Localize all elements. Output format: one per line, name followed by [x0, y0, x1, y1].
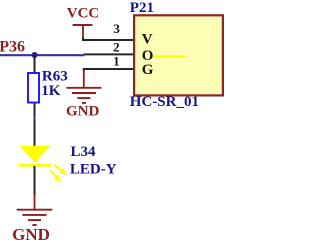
svg-text:G: G [142, 62, 154, 78]
highlighted net stub inside box (yellow) [153, 55, 186, 57]
svg-text:3: 3 [113, 21, 120, 36]
svg-text:2: 2 [113, 39, 120, 54]
wire resistor to LED [34, 103, 36, 147]
designator L34 [71, 144, 97, 160]
LED light arrow 1 [54, 165, 67, 175]
LED L34 cathode bar [18, 164, 51, 167]
svg-text:GND: GND [12, 225, 50, 243]
pin name G [142, 62, 154, 78]
ground GND (lower) text [12, 225, 50, 244]
pin number 1 [113, 54, 120, 69]
ground GND (upper) stem [83, 70, 85, 88]
svg-text:V: V [142, 32, 153, 48]
designator R63 [42, 69, 68, 85]
blue wire stub below resistor [34, 116, 36, 119]
ground GND (lower) bars [17, 210, 53, 225]
designator P21 [130, 0, 154, 16]
svg-text:L34: L34 [71, 144, 97, 160]
component U P21 body box [134, 15, 223, 95]
svg-text:1K: 1K [41, 83, 61, 99]
resistor R63 body [28, 73, 39, 103]
svg-text:VCC: VCC [67, 6, 100, 22]
wire junction to resistor R63 [34, 55, 36, 73]
ground GND (upper) text [66, 104, 100, 120]
svg-text:P36: P36 [0, 39, 25, 56]
part name HC-SR_01 [130, 94, 199, 110]
ground GND (lower) stem [34, 194, 36, 210]
value 1K [41, 83, 61, 99]
pin number 2 [113, 39, 120, 54]
wire from VCC to pin 3 [83, 38, 134, 41]
pin 2 wire segment (dark) to U box [84, 53, 134, 55]
wire LED to ground [34, 166, 36, 195]
power port VCC symbol bar and stem [73, 25, 93, 38]
LED L34 anode triangle [19, 146, 50, 163]
ground GND (upper) bars [66, 88, 101, 103]
pin name O [142, 48, 154, 64]
net label P36 [0, 39, 25, 56]
svg-text:LED-Y: LED-Y [70, 161, 117, 177]
pin name V [142, 32, 153, 48]
svg-text:R63: R63 [42, 69, 68, 85]
power port VCC text [67, 6, 100, 22]
wire net P36 horizontal (blue) [0, 54, 85, 56]
pin number 3 [113, 21, 120, 36]
LED light arrow 2 [50, 171, 61, 182]
label LED-Y [70, 161, 117, 177]
svg-text:HC-SR_01: HC-SR_01 [130, 94, 199, 110]
junction node on P36 net [32, 52, 38, 58]
svg-text:P21: P21 [130, 0, 154, 16]
pin 1 wire from U box to ground [84, 69, 134, 71]
svg-text:1: 1 [113, 54, 120, 69]
svg-text:GND: GND [66, 104, 100, 120]
